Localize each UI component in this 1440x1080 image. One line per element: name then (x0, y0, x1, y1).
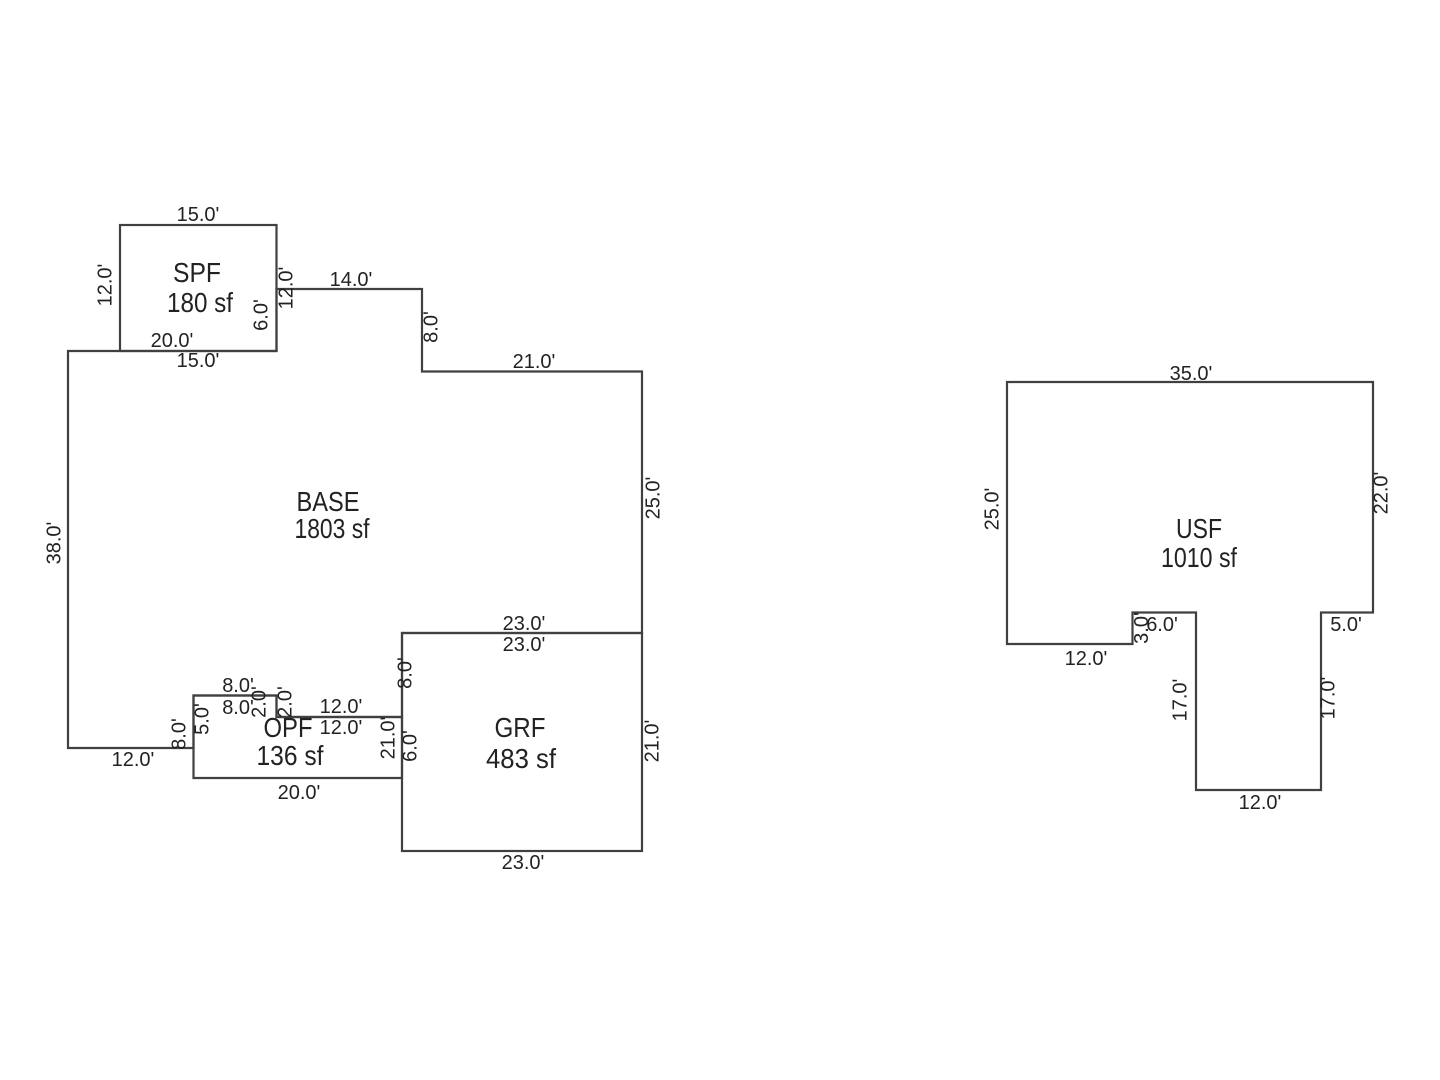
svg-text:23.0': 23.0' (503, 634, 546, 656)
svg-text:20.0': 20.0' (151, 330, 194, 352)
svg-text:21.0': 21.0' (377, 717, 399, 760)
svg-text:17.0': 17.0' (1169, 679, 1191, 722)
svg-text:38.0': 38.0' (43, 522, 65, 565)
svg-text:35.0': 35.0' (1170, 363, 1213, 385)
svg-text:21.0': 21.0' (513, 351, 556, 373)
svg-text:23.0': 23.0' (502, 852, 545, 874)
svg-text:8.0': 8.0' (168, 718, 190, 750)
svg-text:USF: USF (1176, 513, 1222, 544)
svg-text:22.0': 22.0' (1370, 472, 1392, 515)
svg-text:483 sf: 483 sf (486, 743, 556, 774)
svg-text:6.0': 6.0' (399, 730, 421, 762)
svg-text:15.0': 15.0' (177, 204, 220, 226)
svg-text:180 sf: 180 sf (167, 287, 233, 318)
svg-text:5.0': 5.0' (191, 703, 213, 735)
svg-text:23.0': 23.0' (503, 613, 546, 635)
svg-text:GRF: GRF (495, 712, 546, 743)
svg-text:17.0': 17.0' (1317, 677, 1339, 720)
svg-text:25.0': 25.0' (981, 488, 1003, 531)
svg-text:6.0': 6.0' (250, 299, 272, 331)
svg-text:2.0': 2.0' (274, 686, 296, 718)
svg-text:8.0': 8.0' (420, 311, 442, 343)
svg-text:1010 sf: 1010 sf (1161, 542, 1237, 573)
svg-text:12.0': 12.0' (112, 749, 155, 771)
svg-text:2.0': 2.0' (248, 686, 270, 718)
svg-text:12.0': 12.0' (320, 696, 363, 718)
svg-text:14.0': 14.0' (330, 269, 373, 291)
svg-text:12.0': 12.0' (94, 264, 116, 307)
svg-text:1803 sf: 1803 sf (295, 513, 370, 544)
svg-text:5.0': 5.0' (1330, 614, 1362, 636)
svg-text:136 sf: 136 sf (257, 740, 324, 771)
svg-text:12.0': 12.0' (320, 717, 363, 739)
svg-text:25.0': 25.0' (642, 477, 664, 520)
svg-text:20.0': 20.0' (278, 782, 321, 804)
svg-text:SPF: SPF (173, 257, 221, 288)
svg-text:12.0': 12.0' (275, 267, 297, 310)
svg-text:21.0': 21.0' (641, 720, 663, 763)
svg-text:12.0': 12.0' (1239, 792, 1282, 814)
svg-text:15.0': 15.0' (177, 350, 220, 372)
svg-text:3.0': 3.0' (1131, 612, 1153, 644)
svg-text:8.0': 8.0' (394, 657, 416, 689)
svg-text:12.0': 12.0' (1065, 648, 1108, 670)
